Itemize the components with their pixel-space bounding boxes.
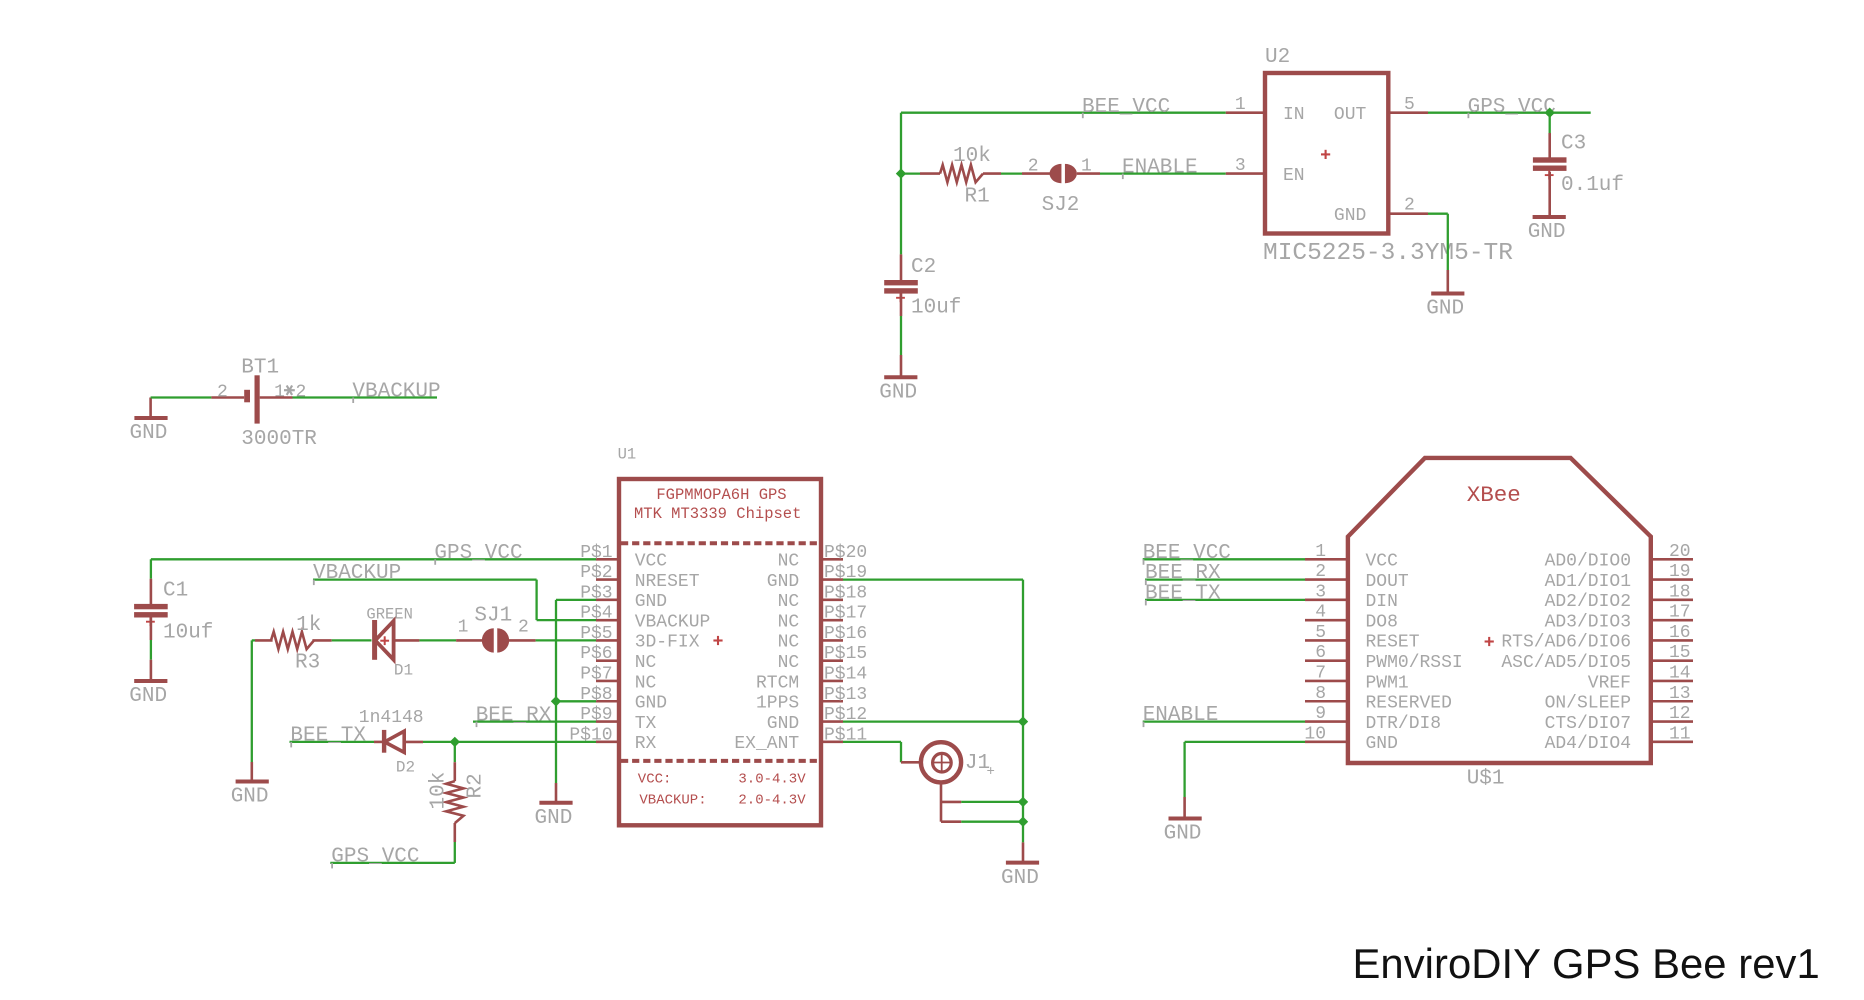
- U1 pin P$11 stub: [821, 741, 843, 744]
- net label tick: [1145, 580, 1147, 586]
- svg-text:4: 4: [1315, 603, 1326, 623]
- svg-text:5: 5: [1404, 95, 1415, 115]
- svg-text:0.1uf: 0.1uf: [1561, 174, 1624, 197]
- svg-text:EnviroDIY GPS Bee rev1: EnviroDIY GPS Bee rev1: [1353, 940, 1820, 987]
- XBee pin 15 stub: [1651, 659, 1693, 662]
- svg-text:RESET: RESET: [1366, 633, 1420, 653]
- XBee pin 16 stub: [1651, 639, 1693, 642]
- J1 shield pins: [940, 782, 943, 821]
- svg-text:VCC:: VCC:: [638, 772, 672, 788]
- svg-text:2.0-4.3V: 2.0-4.3V: [738, 793, 806, 809]
- XBee pin 1 stub: [1305, 558, 1348, 561]
- U1 pin P$6 stub: [596, 659, 619, 662]
- svg-text:P$15: P$15: [824, 644, 867, 664]
- solder jumper SJ2: [1050, 164, 1062, 183]
- svg-text:5: 5: [1315, 623, 1326, 643]
- wire XBee pin 10 GND: [1185, 741, 1305, 743]
- C3 lead top: [1548, 133, 1551, 158]
- svg-text:10: 10: [1304, 724, 1326, 744]
- U1 pin P$2 stub: [596, 578, 619, 581]
- svg-text:BEE_VCC: BEE_VCC: [1082, 96, 1170, 119]
- GND symbol pin under J1: [1022, 842, 1025, 861]
- svg-text:AD2/DIO2: AD2/DIO2: [1545, 592, 1631, 612]
- svg-text:P$16: P$16: [824, 624, 867, 644]
- junction node R1/C2/BEE_VCC: [896, 168, 906, 178]
- wire BEE_VCC vertical: [900, 113, 902, 174]
- ground under C2: [884, 375, 917, 379]
- net label tick: [290, 742, 292, 748]
- C1 lead bottom: [150, 617, 153, 640]
- svg-text:P$7: P$7: [580, 664, 612, 684]
- U2 origin cross: [1321, 153, 1330, 155]
- ground under U1: [539, 801, 572, 805]
- svg-text:CTS/DIO7: CTS/DIO7: [1545, 714, 1631, 734]
- SJ1 pin 1 stub: [456, 639, 482, 642]
- wire U1 P$12 to ground net: [843, 720, 1023, 722]
- net label tick: [476, 722, 478, 728]
- wire GPS_VCC to C3: [1549, 113, 1551, 133]
- wire J1 shield lower to ground net: [961, 821, 1023, 823]
- net label tick: [1467, 113, 1469, 119]
- D2 lead right: [404, 741, 423, 744]
- wire net VBACKUP from battery: [293, 396, 438, 398]
- GND symbol pin: [1447, 270, 1450, 292]
- svg-text:R2: R2: [465, 773, 488, 798]
- R3 lead left: [255, 639, 273, 642]
- wire net ENABLE to XBee pin 9: [1143, 720, 1305, 722]
- XBee pin 5 stub: [1305, 639, 1348, 642]
- wire VBACKUP to U1 P$4: [537, 619, 596, 621]
- junction P$8 ground net: [551, 696, 561, 706]
- wire J1 shield upper to ground net: [961, 801, 1023, 803]
- U1 pin P$8 stub: [596, 700, 619, 703]
- svg-text:AD0/DIO0: AD0/DIO0: [1545, 552, 1631, 572]
- wire XBee GND vertical: [1183, 742, 1185, 797]
- U1 pin P$9 stub: [596, 720, 619, 723]
- svg-text:3000TR: 3000TR: [241, 428, 317, 451]
- C1 lead top: [150, 579, 153, 605]
- junction shield upper: [1018, 797, 1028, 807]
- R1 lead right: [983, 172, 1001, 175]
- svg-text:10uf: 10uf: [163, 622, 213, 645]
- svg-text:VCC: VCC: [1366, 552, 1399, 572]
- svg-text:+: +: [987, 764, 995, 780]
- svg-text:2: 2: [1028, 156, 1039, 176]
- svg-text:P$20: P$20: [824, 543, 867, 563]
- svg-text:FGPMMOPA6H GPS: FGPMMOPA6H GPS: [656, 486, 786, 504]
- capacitor C1: [134, 604, 168, 609]
- U1 pin P$20 stub: [821, 558, 843, 561]
- svg-text:P$2: P$2: [580, 563, 612, 583]
- U2 pin 5 stub OUT: [1388, 111, 1428, 114]
- svg-text:NC: NC: [778, 592, 800, 612]
- svg-text:XBee: XBee: [1467, 482, 1521, 508]
- solder jumper SJ1: [482, 628, 494, 652]
- svg-text:AD1/DIO1: AD1/DIO1: [1545, 572, 1631, 592]
- svg-text:TX: TX: [635, 714, 657, 734]
- ground under R3: [236, 780, 269, 784]
- R2 lead top: [453, 762, 456, 781]
- svg-text:GND: GND: [1001, 867, 1039, 890]
- GND symbol pin under R3: [251, 762, 254, 780]
- wire ground to BT1 pin 2: [151, 396, 212, 398]
- U1 pin P$13 stub: [821, 700, 843, 703]
- svg-text:10k: 10k: [953, 145, 991, 168]
- U1 pin P$19 stub: [821, 578, 843, 581]
- wire U1 P$11 to J1: [843, 741, 901, 743]
- net label tick: [352, 398, 354, 404]
- wire junction to R2: [454, 742, 456, 762]
- svg-text:1n4148: 1n4148: [359, 708, 424, 728]
- svg-text:OUT: OUT: [1334, 105, 1367, 125]
- svg-text:RX: RX: [635, 734, 657, 754]
- U$1 origin cross: [1485, 640, 1494, 642]
- svg-text:7: 7: [1315, 663, 1326, 683]
- BT1 pin name asterisk: [284, 389, 295, 391]
- svg-text:BEE_TX: BEE_TX: [1145, 582, 1221, 605]
- GPS module U1 FGPMMOPA6H box: [619, 479, 821, 825]
- svg-text:GND: GND: [1366, 734, 1398, 754]
- svg-text:D1: D1: [394, 662, 413, 680]
- svg-text:ENABLE: ENABLE: [1143, 704, 1219, 727]
- svg-text:1: 1: [458, 617, 469, 637]
- svg-text:VBACKUP: VBACKUP: [352, 381, 440, 404]
- XBee pin 14 stub: [1651, 680, 1693, 683]
- junction GPS_VCC/C3: [1545, 108, 1555, 118]
- junction BEE_TX/R2: [450, 737, 460, 747]
- wire C2 to ground: [900, 316, 902, 355]
- svg-text:PWM1: PWM1: [1366, 673, 1409, 693]
- LED D1 GREEN: [372, 620, 377, 660]
- svg-text:MTK MT3339 Chipset: MTK MT3339 Chipset: [634, 505, 801, 523]
- svg-text:13: 13: [1669, 684, 1691, 704]
- wire net GPS_VCC at R2: [330, 862, 455, 864]
- XBee pin 9 stub: [1305, 720, 1348, 723]
- svg-text:BEE_RX: BEE_RX: [476, 704, 552, 727]
- ground under XBee: [1169, 817, 1202, 821]
- capacitor C2: [884, 280, 918, 285]
- svg-text:2: 2: [518, 617, 529, 637]
- net label tick: [1122, 174, 1124, 180]
- svg-text:3D-FIX: 3D-FIX: [635, 633, 700, 653]
- svg-text:U1: U1: [618, 446, 637, 464]
- net label tick: [434, 559, 436, 565]
- ground under C3: [1533, 215, 1566, 219]
- wire net BEE_TX to D2: [290, 741, 375, 743]
- svg-text:DO8: DO8: [1366, 612, 1398, 632]
- wire net BEE_RX to XBee pin 2: [1145, 578, 1305, 580]
- svg-text:16: 16: [1669, 623, 1691, 643]
- U1 pin P$3 stub: [596, 599, 619, 602]
- wire D2 to junction: [423, 741, 455, 743]
- U1 dashed separator bottom: [621, 759, 819, 763]
- XBee module U$1 outline: [1348, 458, 1651, 763]
- wire D1 to SJ1: [419, 639, 456, 641]
- svg-text:U2: U2: [1265, 46, 1290, 69]
- U2 pin 3 stub EN: [1226, 172, 1265, 175]
- wire SJ1 to U1 P$5: [536, 639, 596, 641]
- resistor R2: [446, 781, 463, 823]
- svg-text:RESERVED: RESERVED: [1366, 694, 1452, 714]
- XBee pin 8 stub: [1305, 700, 1348, 703]
- wire net BEE_VCC to U2 pin 1: [901, 112, 1226, 114]
- svg-text:9: 9: [1315, 704, 1326, 724]
- wire net VBACKUP: [313, 578, 537, 580]
- svg-text:20: 20: [1669, 542, 1691, 562]
- U1 pin P$12 stub: [821, 720, 843, 723]
- svg-text:2: 2: [1404, 196, 1415, 216]
- svg-text:ENABLE: ENABLE: [1122, 157, 1198, 180]
- svg-text:VCC: VCC: [635, 552, 668, 572]
- svg-text:DOUT: DOUT: [1366, 572, 1409, 592]
- U2 pin 1 stub IN: [1226, 111, 1265, 114]
- svg-text:P$17: P$17: [824, 604, 867, 624]
- wire net BEE_VCC to XBee pin 1: [1143, 558, 1305, 560]
- net label tick: [1143, 559, 1145, 565]
- svg-text:2: 2: [296, 383, 307, 403]
- wire net ENABLE to U2 pin 3: [1100, 172, 1226, 174]
- D1 lead right: [394, 639, 420, 642]
- svg-text:VREF: VREF: [1588, 673, 1631, 693]
- wire U1 P$8 to ground net: [556, 700, 596, 702]
- svg-text:2: 2: [217, 383, 228, 403]
- svg-text:NC: NC: [778, 653, 800, 673]
- D2 lead left: [374, 741, 384, 744]
- svg-text:19: 19: [1669, 562, 1691, 582]
- svg-text:12: 12: [1669, 704, 1691, 724]
- svg-text:1: 1: [274, 383, 285, 403]
- XBee pin 10 stub: [1305, 741, 1348, 744]
- GND symbol pin under U1: [555, 783, 558, 801]
- svg-text:GND: GND: [767, 572, 799, 592]
- svg-text:P$6: P$6: [580, 644, 612, 664]
- ground under C1: [134, 679, 167, 683]
- svg-text:C3: C3: [1561, 133, 1586, 156]
- U1 pin P$17 stub: [821, 619, 843, 622]
- svg-text:P$13: P$13: [824, 685, 867, 705]
- svg-text:ON/SLEEP: ON/SLEEP: [1545, 694, 1631, 714]
- U1 pin P$16 stub: [821, 639, 843, 642]
- wire U2 GND: [1428, 213, 1448, 215]
- svg-text:DTR/DI8: DTR/DI8: [1366, 714, 1442, 734]
- svg-text:R3: R3: [295, 651, 320, 674]
- resistor R1: [940, 165, 983, 182]
- wire corner at R3: [252, 639, 255, 641]
- op-amp regulator U2 MIC5225 box: [1265, 73, 1388, 234]
- svg-text:2: 2: [1315, 562, 1326, 582]
- svg-text:3: 3: [1315, 582, 1326, 602]
- wire to C1: [150, 559, 152, 578]
- U1 pin P$5 stub: [596, 639, 619, 642]
- J1 center pin lead: [901, 761, 922, 764]
- wire net GPS_VCC from U2 OUT: [1428, 112, 1591, 114]
- svg-text:1: 1: [1315, 542, 1326, 562]
- SJ2 pin 2 stub: [1022, 172, 1050, 175]
- svg-text:GND: GND: [231, 786, 269, 809]
- GND symbol pin under XBee: [1183, 797, 1186, 817]
- U1 pin P$1 stub: [596, 558, 619, 561]
- C2 lead bottom: [900, 294, 903, 317]
- wire to J1 center: [900, 742, 902, 762]
- svg-text:GND: GND: [1334, 206, 1366, 226]
- svg-text:EX_ANT: EX_ANT: [734, 734, 799, 754]
- svg-text:GPS_VCC: GPS_VCC: [331, 845, 419, 868]
- wire ground net vertical: [555, 600, 557, 783]
- ground at battery: [134, 416, 167, 420]
- connector J1 coax: [921, 742, 961, 782]
- U1 pin P$7 stub: [596, 680, 619, 683]
- net label tick: [1143, 722, 1145, 728]
- svg-text:AD4/DIO4: AD4/DIO4: [1545, 734, 1631, 754]
- net label tick: [331, 863, 333, 869]
- ground under J1: [1006, 861, 1039, 865]
- U2 pin 2 stub GND: [1388, 212, 1428, 215]
- svg-text:15: 15: [1669, 643, 1691, 663]
- wire R3 to D1: [332, 639, 372, 641]
- U1 pin P$10 stub: [596, 741, 619, 744]
- svg-text:8: 8: [1315, 684, 1326, 704]
- GND symbol pin under C2: [900, 355, 903, 376]
- diode D2 1n4148: [382, 730, 386, 753]
- svg-text:11: 11: [1669, 724, 1691, 744]
- svg-text:GND: GND: [535, 807, 573, 830]
- svg-text:3.0-4.3V: 3.0-4.3V: [738, 772, 806, 788]
- XBee pin 2 stub: [1305, 578, 1348, 581]
- XBee pin 11 stub: [1651, 741, 1693, 744]
- svg-text:VBACKUP: VBACKUP: [635, 612, 711, 632]
- SJ2 pin 1 stub: [1077, 172, 1100, 175]
- D1 origin cross: [380, 640, 389, 642]
- C2 lead top: [900, 254, 903, 280]
- resistor R3: [271, 632, 314, 649]
- XBee pin 6 stub: [1305, 659, 1348, 662]
- U1 origin cross: [713, 639, 722, 641]
- svg-text:R1: R1: [965, 186, 990, 209]
- XBee pin 13 stub: [1651, 700, 1693, 703]
- svg-text:C2: C2: [911, 256, 936, 279]
- svg-text:D2: D2: [396, 759, 415, 777]
- net label tick: [313, 580, 315, 586]
- net label tick: [1145, 600, 1147, 606]
- svg-text:GND: GND: [635, 694, 667, 714]
- wire U1 P$19 to ground net: [843, 578, 1023, 580]
- svg-text:NC: NC: [778, 633, 800, 653]
- XBee pin 12 stub: [1651, 720, 1693, 723]
- svg-text:SJ2: SJ2: [1042, 194, 1080, 217]
- XBee pin 17 stub: [1651, 619, 1693, 622]
- XBee pin 4 stub: [1305, 619, 1348, 622]
- svg-text:DIN: DIN: [1366, 592, 1398, 612]
- wire R1 to SJ2: [1001, 172, 1022, 174]
- wire net GPS_VCC to U1 P$1: [151, 558, 596, 560]
- svg-text:NRESET: NRESET: [635, 572, 700, 592]
- svg-text:NC: NC: [635, 673, 657, 693]
- wire junction to R1: [901, 172, 920, 174]
- svg-text:1k: 1k: [296, 614, 321, 637]
- U1 dashed separator top: [621, 541, 819, 545]
- svg-text:NC: NC: [778, 552, 800, 572]
- R1 lead left: [920, 172, 940, 175]
- net label tick: [1082, 113, 1084, 119]
- svg-text:GND: GND: [1426, 298, 1464, 321]
- XBee pin 19 stub: [1651, 578, 1693, 581]
- wire U1 P$3 to ground net: [556, 599, 596, 601]
- svg-text:C1: C1: [163, 580, 188, 603]
- R2 lead bottom: [453, 823, 456, 842]
- wire junction to C2: [900, 174, 902, 255]
- svg-text:BT1: BT1: [241, 357, 279, 380]
- svg-text:EN: EN: [1283, 166, 1305, 186]
- SJ1 pin 2 stub: [509, 639, 536, 642]
- svg-text:P$18: P$18: [824, 583, 867, 603]
- svg-text:NC: NC: [778, 612, 800, 632]
- U1 pin P$15 stub: [821, 659, 843, 662]
- XBee pin 7 stub: [1305, 680, 1348, 683]
- C3 lead bottom: [1548, 172, 1551, 216]
- svg-text:GPS_VCC: GPS_VCC: [434, 542, 522, 565]
- svg-text:NC: NC: [635, 653, 657, 673]
- svg-text:GND: GND: [635, 592, 667, 612]
- GND symbol pin under C1: [150, 660, 153, 680]
- battery BT1: [244, 390, 250, 403]
- svg-text:MIC5225-3.3YM5-TR: MIC5225-3.3YM5-TR: [1263, 240, 1513, 267]
- svg-text:RTS/AD6/DIO6: RTS/AD6/DIO6: [1501, 633, 1631, 653]
- ground under U2: [1431, 292, 1464, 296]
- svg-text:VBACKUP: VBACKUP: [313, 562, 401, 585]
- GND symbol pin at battery: [149, 398, 152, 417]
- BT1 pin 1 lead: [260, 396, 293, 399]
- capacitor C3: [1533, 157, 1567, 162]
- svg-text:IN: IN: [1283, 105, 1305, 125]
- BT1 pin 2 lead: [211, 396, 244, 399]
- svg-text:ASC/AD5/DIO5: ASC/AD5/DIO5: [1501, 653, 1631, 673]
- svg-text:GND: GND: [1164, 823, 1202, 846]
- svg-text:GPS_VCC: GPS_VCC: [1468, 96, 1556, 119]
- wire R3 to ground vertical: [251, 640, 253, 762]
- svg-text:GND: GND: [767, 714, 799, 734]
- wire VBACKUP vertical: [535, 580, 537, 621]
- svg-text:14: 14: [1669, 663, 1691, 683]
- U1 pin P$14 stub: [821, 680, 843, 683]
- svg-text:17: 17: [1669, 603, 1691, 623]
- svg-text:PWM0/RSSI: PWM0/RSSI: [1366, 653, 1463, 673]
- svg-text:10k: 10k: [428, 772, 451, 810]
- svg-text:GND: GND: [130, 422, 168, 445]
- svg-text:18: 18: [1669, 582, 1691, 602]
- wire R2 to GPS_VCC corner: [454, 842, 456, 863]
- svg-text:BEE_TX: BEE_TX: [290, 725, 366, 748]
- wire net BEE_RX to U1 P$9: [473, 720, 596, 722]
- wire net BEE_TX to XBee pin 3: [1145, 599, 1305, 601]
- wire U2 GND vertical: [1447, 214, 1449, 270]
- XBee pin 18 stub: [1651, 599, 1693, 602]
- junction shield lower: [1018, 817, 1028, 827]
- wire junction to U1 P$10: [455, 741, 596, 743]
- svg-text:GND: GND: [129, 685, 167, 708]
- svg-text:GREEN: GREEN: [366, 606, 413, 624]
- svg-text:U$1: U$1: [1467, 768, 1505, 791]
- svg-text:RTCM: RTCM: [756, 673, 799, 693]
- XBee pin 20 stub: [1651, 558, 1693, 561]
- wire C1 to ground: [150, 640, 152, 660]
- U1 pin P$4 stub: [596, 619, 619, 622]
- svg-text:VBACKUP:: VBACKUP:: [639, 793, 706, 809]
- junction P$12 ground net: [1018, 716, 1028, 726]
- svg-text:10uf: 10uf: [911, 297, 961, 320]
- U1 pin P$18 stub: [821, 599, 843, 602]
- svg-text:P$14: P$14: [824, 664, 867, 684]
- svg-text:6: 6: [1315, 643, 1326, 663]
